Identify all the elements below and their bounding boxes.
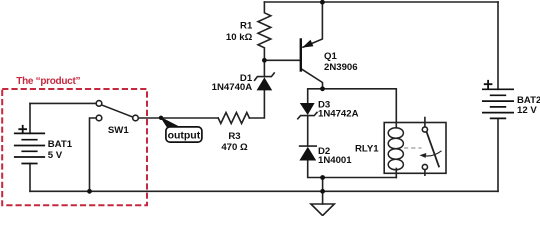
svg-text:470 Ω: 470 Ω — [221, 142, 248, 153]
svg-text:5 V: 5 V — [48, 150, 63, 161]
svg-text:BAT1: BAT1 — [48, 139, 73, 150]
svg-text:12 V: 12 V — [517, 105, 537, 116]
svg-text:Q1: Q1 — [324, 51, 337, 62]
svg-text:The “product”: The “product” — [16, 76, 80, 87]
svg-text:1N4001: 1N4001 — [318, 155, 352, 166]
svg-text:1N4742A: 1N4742A — [318, 109, 359, 120]
svg-text:2N3906: 2N3906 — [324, 62, 358, 73]
svg-text:RLY1: RLY1 — [355, 144, 379, 155]
svg-text:10 kΩ: 10 kΩ — [226, 32, 253, 43]
svg-text:1N4740A: 1N4740A — [212, 82, 253, 93]
svg-text:R3: R3 — [228, 131, 240, 142]
svg-text:output: output — [168, 130, 201, 142]
svg-text:R1: R1 — [240, 21, 253, 32]
svg-text:SW1: SW1 — [108, 125, 129, 136]
